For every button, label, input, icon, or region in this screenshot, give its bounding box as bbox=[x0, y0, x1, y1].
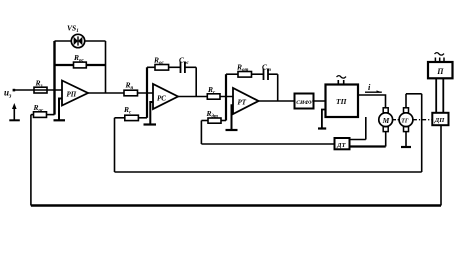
svg-text:РТ: РТ bbox=[238, 99, 247, 107]
diode VS1 bidirectional zener bbox=[71, 34, 84, 47]
wire Roc1 branch right bbox=[86, 64, 105, 66]
wire SIFU to TP bbox=[314, 100, 326, 102]
resistor R_oc3 bbox=[238, 72, 252, 78]
capacitor C_oc3 bbox=[263, 69, 265, 81]
wire input to R_z bbox=[14, 89, 62, 91]
wire current feedback horizontal bbox=[201, 143, 334, 145]
ground stage3 bbox=[232, 105, 234, 130]
svg-text:ТП: ТП bbox=[336, 97, 348, 106]
ground TP bbox=[322, 110, 326, 129]
motor M bbox=[383, 108, 388, 113]
resistor R_oc1 bbox=[74, 62, 87, 68]
wire P to DP bbox=[435, 78, 437, 113]
block DP position sensor bbox=[432, 113, 448, 125]
ground stage2 bbox=[150, 102, 153, 125]
tachogenerator TG bbox=[404, 108, 409, 113]
svg-text:ДТ: ДТ bbox=[336, 142, 346, 149]
resistor R_oc2 bbox=[155, 65, 169, 71]
resistor R_in3 bbox=[207, 94, 220, 99]
wire speed feedback vertical right bbox=[421, 94, 423, 172]
wire feedback2 right bbox=[185, 66, 196, 68]
wire inverting node vertical stage3 bbox=[225, 74, 227, 120]
wire R_low3 left bbox=[201, 120, 208, 122]
wire feedback3 right vertical bbox=[277, 74, 279, 101]
wire R_in2 to op-amp2 bbox=[138, 92, 154, 94]
node input terminal bbox=[13, 89, 16, 92]
svg-text:РП: РП bbox=[67, 91, 77, 99]
source arrow u_z bbox=[13, 107, 15, 120]
label tilde TP bbox=[337, 76, 347, 79]
wire output stage2 bbox=[178, 96, 207, 98]
wire speed feedback bottom bbox=[115, 171, 422, 173]
wire feedback3 left bbox=[226, 73, 238, 75]
capacitor C_oc2 bbox=[180, 62, 182, 74]
wire R_low2 right bbox=[138, 117, 147, 119]
svg-text:ТГ: ТГ bbox=[401, 118, 409, 124]
wire TP output bbox=[358, 95, 386, 108]
wire inverting node vertical stage2 bbox=[146, 67, 148, 118]
wire TG to speed feedback bbox=[406, 93, 422, 95]
shaft coupling M-TG bbox=[393, 119, 399, 121]
wire TP ac leads bbox=[337, 80, 339, 85]
wire position feedback vertical left bbox=[30, 115, 32, 206]
wire R_low1 left bbox=[31, 114, 34, 116]
svg-text:П: П bbox=[436, 67, 444, 76]
wire feedback2 right vertical bbox=[195, 67, 197, 96]
resistor R_z1 bbox=[34, 87, 47, 93]
resistor R_low2 bbox=[125, 115, 139, 120]
wire feedback2 left bbox=[147, 66, 155, 68]
wire P ac leads bbox=[434, 58, 436, 63]
wire R_low2 left bbox=[115, 117, 125, 119]
wire R_low3 right bbox=[221, 120, 226, 122]
svg-text:РС: РС bbox=[157, 95, 166, 103]
ground TG bbox=[405, 132, 407, 147]
wire inverting node vertical stage1 bbox=[53, 41, 55, 115]
resistor R_low3 bbox=[208, 118, 221, 123]
wire position feedback vertical right bbox=[440, 125, 442, 205]
wire feedback3 mid bbox=[252, 73, 264, 75]
shaft coupling TG-DP bbox=[413, 119, 432, 121]
op-amp U3 RT bbox=[233, 88, 259, 114]
ground stage1 bbox=[59, 99, 62, 121]
wire TG top bbox=[405, 94, 407, 108]
label tilde P bbox=[435, 53, 445, 56]
wire Roc1 branch left bbox=[55, 64, 74, 66]
wire feedback2 mid bbox=[169, 66, 181, 68]
wire feedback3 right bbox=[268, 73, 278, 75]
op-amp U1 RP bbox=[62, 81, 88, 106]
wire VS branch right bbox=[85, 40, 106, 42]
block DT current sensor bbox=[335, 138, 350, 149]
resistor R_low1 bbox=[34, 112, 47, 118]
block SIFU bbox=[295, 94, 314, 109]
wire TP bottom terminal bbox=[365, 117, 367, 140]
wire motor return to DT bbox=[350, 145, 386, 147]
wire R_in3 to op-amp3 bbox=[220, 96, 233, 98]
svg-text:М: М bbox=[382, 116, 390, 125]
wire motor bottom bbox=[385, 132, 387, 147]
wire feedback right vertical stage1 bbox=[105, 41, 107, 93]
svg-text:СИФУ: СИФУ bbox=[296, 100, 313, 106]
wire output stage3 bbox=[259, 100, 295, 102]
wire speed feedback vertical left bbox=[114, 118, 116, 172]
op-amp U2 RS bbox=[153, 84, 178, 109]
resistor R_in2 bbox=[124, 90, 138, 96]
wire current feedback vertical bbox=[200, 121, 202, 145]
block P supply bbox=[428, 62, 453, 78]
svg-text:ДП: ДП bbox=[434, 117, 446, 124]
wire position feedback bottom bbox=[31, 204, 441, 206]
block TP thyristor converter bbox=[326, 85, 359, 118]
wire output stage1 bbox=[88, 92, 124, 94]
wire R_low1 right bbox=[47, 114, 55, 116]
wire VS branch left bbox=[55, 40, 72, 42]
